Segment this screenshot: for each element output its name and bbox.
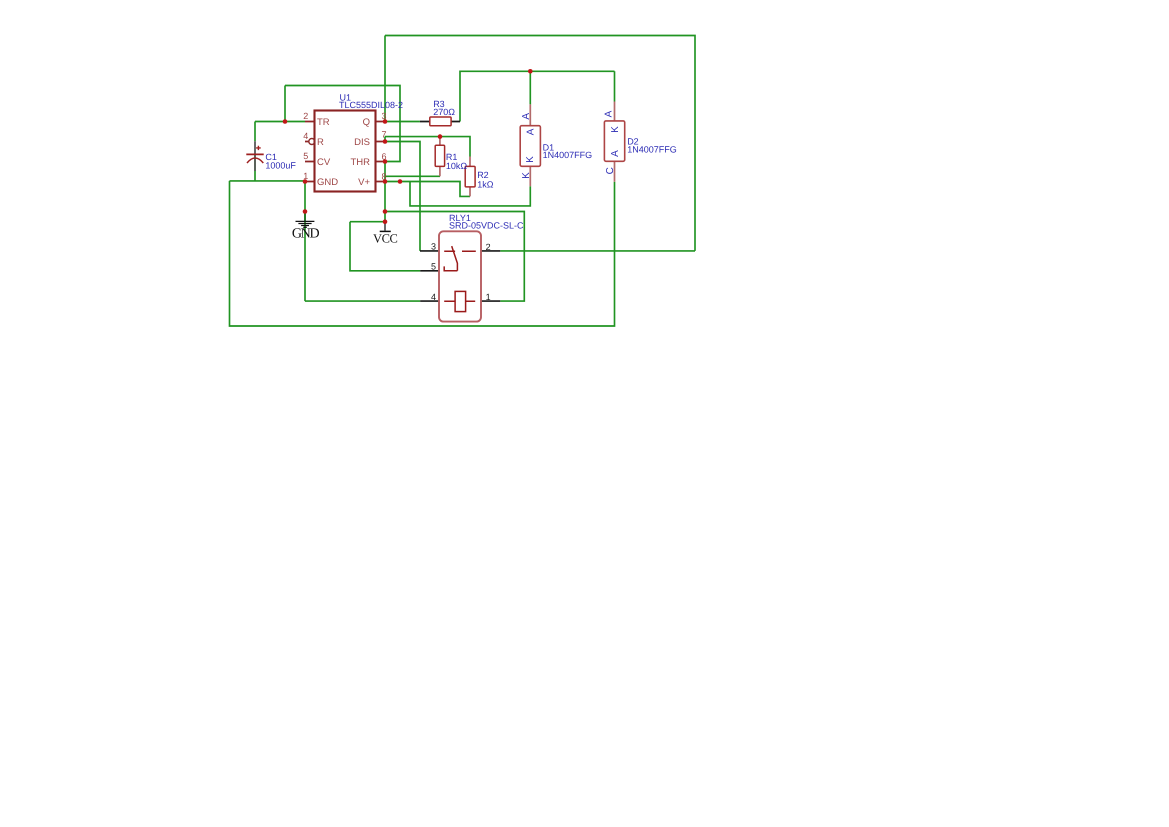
- svg-text:THR: THR: [350, 157, 370, 168]
- svg-text:8: 8: [382, 171, 387, 181]
- svg-text:A: A: [521, 113, 532, 120]
- svg-text:DIS: DIS: [354, 137, 370, 148]
- svg-text:7: 7: [382, 130, 387, 140]
- svg-text:4: 4: [431, 292, 436, 302]
- svg-text:A: A: [525, 128, 536, 135]
- svg-text:1: 1: [303, 171, 308, 181]
- svg-text:1N4007FFG: 1N4007FFG: [627, 145, 677, 155]
- svg-text:K: K: [521, 172, 532, 179]
- svg-text:K: K: [525, 156, 536, 163]
- svg-text:CV: CV: [317, 157, 331, 168]
- svg-text:V+: V+: [358, 177, 370, 188]
- svg-text:3: 3: [431, 242, 436, 252]
- svg-text:A: A: [604, 110, 615, 117]
- svg-text:TLC555DIL08-2: TLC555DIL08-2: [339, 100, 403, 110]
- svg-text:4: 4: [303, 131, 308, 141]
- svg-text:5: 5: [303, 151, 308, 161]
- svg-text:K: K: [610, 126, 621, 133]
- svg-text:R: R: [317, 137, 324, 148]
- svg-text:10kΩ: 10kΩ: [446, 161, 468, 171]
- svg-text:TR: TR: [317, 117, 330, 128]
- svg-text:270Ω: 270Ω: [433, 107, 455, 117]
- svg-text:SRD-05VDC-SL-C: SRD-05VDC-SL-C: [449, 221, 524, 231]
- svg-text:C: C: [605, 167, 616, 174]
- svg-text:5: 5: [431, 262, 436, 272]
- svg-text:VCC: VCC: [373, 231, 398, 245]
- svg-text:2: 2: [303, 111, 308, 121]
- svg-text:1N4007FFG: 1N4007FFG: [543, 150, 593, 160]
- svg-text:GND: GND: [317, 177, 338, 188]
- svg-text:2: 2: [486, 242, 491, 252]
- svg-text:1: 1: [486, 292, 491, 302]
- svg-text:3: 3: [382, 111, 387, 121]
- svg-text:A: A: [610, 150, 621, 157]
- svg-text:GND: GND: [292, 227, 320, 242]
- svg-text:1kΩ: 1kΩ: [477, 179, 494, 189]
- svg-text:1000uF: 1000uF: [265, 161, 296, 171]
- svg-text:Q: Q: [363, 117, 370, 128]
- svg-text:6: 6: [382, 151, 387, 161]
